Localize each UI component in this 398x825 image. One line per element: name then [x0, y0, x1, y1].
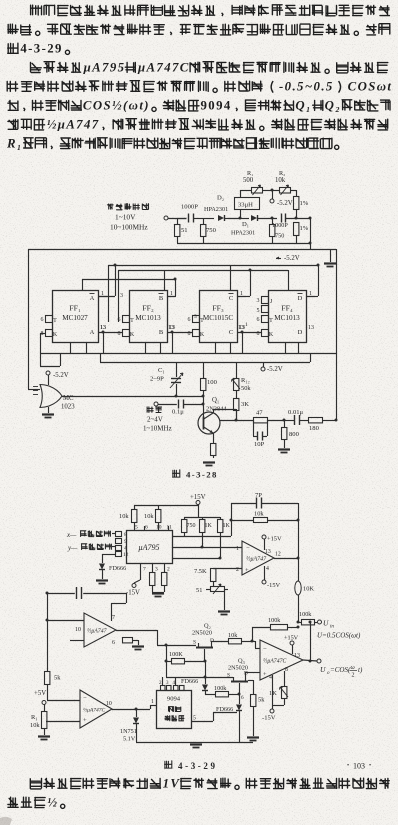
svg-text:750: 750	[275, 233, 284, 240]
wire resistor bank bus	[184, 517, 220, 519]
svg-text:R₁: R₁	[247, 170, 253, 177]
resistor 750	[201, 218, 217, 243]
resistor 800 shunt	[282, 428, 300, 449]
op-amp U6 half-uA747C comparator	[80, 690, 112, 728]
wire left rail fig2	[46, 592, 49, 672]
capacitor 7P feedback	[231, 492, 298, 509]
svg-text:5.1V: 5.1V	[123, 736, 136, 743]
resistor 1K bank-b	[218, 517, 231, 558]
flip-flop FF₄ MC1013	[269, 291, 316, 343]
svg-text:1K: 1K	[223, 523, 231, 529]
svg-text:Q₁: Q₁	[295, 99, 312, 113]
svg-text:T: T	[200, 318, 204, 324]
svg-text:5k: 5k	[258, 697, 265, 704]
wire output to rail	[322, 419, 338, 422]
svg-text:6: 6	[41, 317, 44, 323]
wire U4 minus-15V	[262, 675, 276, 722]
svg-text:100K: 100K	[169, 651, 183, 658]
svg-text:10: 10	[106, 701, 112, 707]
svg-text:ω: ω	[351, 665, 355, 671]
svg-text:t): t)	[358, 666, 363, 674]
label input level 1~10V	[110, 213, 148, 232]
svg-text:6: 6	[145, 525, 148, 531]
svg-text:13: 13	[168, 325, 174, 331]
svg-text:3: 3	[155, 567, 158, 573]
transistor Q1 2N3844	[198, 397, 227, 434]
svg-text:FF₃: FF₃	[212, 304, 224, 313]
svg-text:10k: 10k	[275, 177, 286, 184]
svg-text:10k: 10k	[30, 722, 40, 729]
svg-text:2N5020: 2N5020	[192, 630, 212, 637]
resistor 5k left rail	[45, 672, 62, 701]
svg-text:4: 4	[266, 566, 269, 572]
capacitor 0.1u output coupling	[172, 400, 205, 416]
resistor 10k Q2	[228, 632, 260, 649]
wire Q2 gate down	[204, 661, 207, 679]
resistor 100k U4 feedback	[251, 617, 300, 643]
diode FD666 bottom	[216, 694, 242, 742]
svg-text:47: 47	[256, 410, 263, 417]
flip-flop FF₃ MC1015C	[200, 291, 247, 343]
svg-text:-5.2V: -5.2V	[277, 200, 293, 207]
svg-text:•: •	[347, 763, 349, 769]
svg-text:Q₂: Q₂	[204, 623, 211, 630]
resistor 7.5K plus-input	[194, 565, 242, 586]
wire FF bottoms to bus	[71, 342, 299, 353]
flip-flop FF₁ MC1027	[53, 291, 108, 343]
op-amp U4 half-uA747C right	[260, 640, 303, 681]
svg-text:D₁: D₁	[242, 221, 249, 228]
svg-text:D₂: D₂	[217, 195, 224, 202]
resistor 750 bank	[182, 517, 196, 536]
wire	[177, 218, 187, 220]
svg-text:6: 6	[188, 317, 191, 323]
svg-text:2: 2	[236, 567, 239, 573]
svg-text:10k: 10k	[144, 513, 154, 520]
svg-text:100k: 100k	[268, 617, 281, 624]
svg-text:1000P: 1000P	[181, 204, 198, 211]
text paragraph1 line1	[31, 5, 390, 16]
wire FF1 K loop	[40, 333, 61, 367]
svg-text:0.1μ: 0.1μ	[172, 409, 184, 416]
svg-text:13: 13	[265, 549, 271, 555]
wire bottom bus F	[100, 353, 311, 363]
svg-text:6: 6	[257, 317, 260, 323]
wire right rail	[309, 217, 312, 250]
transistor Q2 2N5020 FET	[192, 623, 214, 662]
power +15V figure2	[190, 494, 206, 517]
resistor under pin2	[152, 573, 167, 593]
svg-text:3K: 3K	[241, 401, 249, 408]
resistor emitter	[209, 444, 216, 462]
svg-text:6: 6	[112, 640, 115, 646]
svg-text:1%: 1%	[300, 225, 309, 232]
svg-text:S: S	[227, 673, 230, 679]
svg-text:½μA747: ½μA747	[246, 556, 267, 563]
ground 800	[278, 450, 290, 453]
node input terminal	[164, 216, 187, 220]
svg-text:MC1015C: MC1015C	[203, 314, 234, 322]
svg-text:+: +	[263, 671, 267, 678]
node junction	[271, 217, 298, 220]
svg-text:0.01μ: 0.01μ	[288, 409, 304, 416]
svg-text:FF₄: FF₄	[281, 304, 293, 313]
text paragraph2 line2	[7, 80, 392, 94]
svg-text:10K: 10K	[303, 586, 314, 593]
resistor 100K Q2 gate	[165, 645, 207, 677]
resistor 51	[175, 218, 188, 243]
svg-text:33μH: 33μH	[238, 202, 253, 209]
svg-text:½μA747C: ½μA747C	[83, 707, 105, 714]
figure caption 图 4-3-28	[173, 470, 218, 480]
svg-text:R₂: R₂	[279, 170, 285, 177]
wire R1 to U6 plus	[44, 721, 80, 723]
svg-text:2~9P: 2~9P	[150, 376, 164, 383]
svg-text:½: ½	[47, 796, 58, 810]
text paragraph2 line3	[8, 99, 390, 113]
wire	[267, 419, 286, 428]
ground top right	[324, 249, 336, 267]
svg-text:3: 3	[257, 298, 260, 304]
ground trim	[218, 612, 230, 615]
svg-text:HPA2301: HPA2301	[231, 230, 255, 237]
svg-text:-15V: -15V	[267, 582, 281, 589]
svg-text:Q₁: Q₁	[212, 397, 219, 404]
svg-text:K: K	[269, 332, 274, 338]
svg-text:x—: x—	[66, 531, 77, 539]
ground R1	[38, 737, 50, 740]
wire Q2 drain to 10k	[211, 641, 228, 643]
potentiometer R1 500	[243, 170, 264, 195]
resistor 10K right rail	[295, 581, 315, 622]
potentiometer R12 50k	[232, 362, 252, 398]
wire Q3 source row	[166, 678, 233, 686]
ground under IC	[152, 594, 164, 597]
resistor 3K	[234, 399, 250, 421]
pin 5 9094	[191, 712, 237, 722]
wire top	[134, 505, 198, 507]
text paragraph2 line1	[31, 61, 388, 75]
pins T K of FF₄	[257, 297, 274, 339]
svg-text:51: 51	[181, 227, 188, 234]
wire bottom bus fig2	[136, 742, 253, 744]
svg-text:U=0.5COS(ωt): U=0.5COS(ωt)	[317, 632, 361, 640]
svg-text:COS½(ωt): COS½(ωt)	[83, 99, 150, 113]
capacitor 0.01u	[284, 409, 304, 425]
svg-text:-0.5~0.5: -0.5~0.5	[279, 80, 334, 94]
svg-text:+: +	[245, 567, 249, 574]
wire FF3 pin1 up	[237, 269, 252, 297]
svg-text:FF₂: FF₂	[142, 304, 154, 313]
wire Q2 source row	[157, 644, 196, 647]
resistor 1K bank-a	[200, 517, 213, 547]
resistor 180	[309, 418, 323, 433]
svg-text:1: 1	[236, 546, 239, 552]
wire top row	[240, 190, 249, 192]
svg-text:1K: 1K	[269, 690, 277, 697]
svg-text:9: 9	[124, 539, 127, 545]
diode FD666 top-left	[99, 554, 126, 579]
svg-text:10k: 10k	[119, 513, 129, 520]
wire bottom bus E	[40, 353, 336, 355]
svg-text:1%: 1%	[300, 200, 309, 207]
svg-text:2: 2	[352, 673, 355, 679]
svg-text:A: A	[90, 295, 95, 302]
ground below gate	[42, 407, 54, 418]
flip-flop FF₂ MC1013	[130, 291, 177, 343]
power -15V opamp U2	[262, 566, 281, 589]
wire U2 output to rail	[274, 557, 300, 560]
node junction	[239, 217, 242, 220]
svg-text:2N5020: 2N5020	[228, 665, 248, 672]
svg-text:1: 1	[245, 322, 248, 328]
resistor U3 plus bias	[100, 638, 139, 646]
svg-text:μA747C: μA747C	[137, 61, 190, 75]
svg-text:−: −	[263, 646, 267, 653]
svg-text:2: 2	[167, 567, 170, 573]
text paragraph1 line2	[8, 24, 390, 36]
pins T K of FF₃	[188, 316, 205, 339]
svg-text:S: S	[193, 640, 196, 646]
wire IC pin14	[172, 557, 242, 560]
wire top bus A	[28, 249, 336, 251]
wire gate output	[62, 395, 205, 398]
svg-text:8: 8	[124, 532, 127, 538]
svg-text:+15V: +15V	[284, 635, 299, 642]
capacitor feedback left	[47, 587, 126, 599]
svg-text:5: 5	[193, 716, 196, 722]
wire gate inputs	[28, 249, 40, 395]
label y-residual adjust	[67, 544, 115, 552]
pins T K of FF₁	[41, 316, 58, 339]
ground emitter	[203, 463, 215, 466]
resistor 10k feedback	[231, 511, 300, 523]
svg-text:μA795: μA795	[83, 61, 126, 75]
svg-text:C: C	[229, 295, 233, 302]
svg-text:100k: 100k	[299, 611, 312, 618]
text bottom line2	[8, 796, 65, 810]
resistor 100 base	[201, 362, 218, 417]
svg-text:5: 5	[257, 308, 260, 314]
svg-text:R₁: R₁	[31, 714, 38, 721]
resistor 47	[254, 410, 268, 423]
svg-text:10: 10	[75, 627, 81, 633]
wire right feedback rail	[336, 249, 338, 420]
svg-text:T: T	[130, 318, 134, 324]
svg-text:8: 8	[188, 331, 191, 337]
svg-text:½μA747: ½μA747	[47, 118, 100, 132]
resistor under pin3	[150, 573, 155, 593]
svg-text:4-3-28: 4-3-28	[186, 470, 218, 480]
output terminal Uo	[317, 659, 363, 679]
wire bus D	[82, 279, 175, 281]
svg-text:4: 4	[269, 675, 272, 681]
svg-text:+5V: +5V	[34, 690, 46, 697]
power +5V	[34, 690, 46, 711]
svg-text:12: 12	[275, 552, 281, 558]
svg-text:13: 13	[308, 325, 314, 331]
svg-text:50k: 50k	[241, 385, 251, 392]
svg-text:−: −	[246, 545, 250, 552]
ground U3 bias	[132, 647, 144, 650]
capacitor 10P parallel	[253, 420, 268, 448]
wire IC pin1 feedback node	[172, 503, 233, 537]
svg-text:HPA2301: HPA2301	[204, 206, 228, 213]
svg-text:MC1013: MC1013	[135, 314, 161, 322]
resistor 1% lower	[294, 223, 309, 244]
svg-text:Q₂: Q₂	[325, 99, 342, 113]
diode D2 HPA2301	[204, 195, 240, 222]
gate MC1023	[40, 385, 75, 411]
svg-text:A: A	[90, 329, 95, 336]
svg-text:K: K	[130, 332, 135, 338]
wire Uin input	[298, 622, 301, 624]
svg-text:R₁₂: R₁₂	[241, 377, 250, 384]
svg-text:1~10V: 1~10V	[115, 213, 136, 222]
svg-text:13: 13	[294, 653, 300, 659]
svg-text:12: 12	[123, 552, 129, 558]
resistor 750 second	[270, 218, 285, 243]
resistor 5k Q3	[248, 680, 265, 736]
svg-text:103: 103	[353, 762, 365, 771]
text paragraph2 line4	[8, 118, 388, 132]
svg-text:-5.2V: -5.2V	[284, 255, 300, 262]
svg-text:U: U	[320, 665, 326, 674]
wire FF4 pin1 to bus B	[306, 264, 320, 297]
potentiometer R2 10k	[275, 170, 292, 195]
svg-text:C: C	[229, 329, 233, 336]
svg-text:Q₃: Q₃	[238, 658, 245, 665]
svg-text:+15V: +15V	[190, 494, 206, 501]
svg-text:K: K	[200, 332, 205, 338]
svg-text:y—: y—	[67, 544, 78, 552]
svg-text:5: 5	[135, 525, 138, 531]
svg-text:R₁: R₁	[6, 137, 23, 151]
label 正弦波输入 input	[107, 204, 148, 210]
svg-text:9094: 9094	[167, 696, 181, 703]
wire U6 top input	[47, 700, 80, 702]
pins top uA795	[135, 525, 172, 531]
label -5.2V bus	[276, 255, 300, 262]
svg-text:10k: 10k	[254, 511, 264, 518]
ground 5k	[247, 738, 259, 741]
svg-text:8: 8	[257, 331, 260, 337]
svg-text:8: 8	[285, 667, 288, 673]
resistor 10k top-a	[119, 505, 137, 530]
page number 103	[347, 762, 371, 771]
svg-text:½μA747: ½μA747	[87, 628, 108, 635]
pins T K of FF₂	[118, 316, 135, 339]
wire unity feedback right	[297, 621, 312, 663]
capacitor 1000P second	[272, 214, 310, 230]
diode FD666 mid	[202, 677, 208, 694]
inductor 33uH	[235, 190, 260, 218]
wire U6 output to 9094	[112, 705, 151, 711]
wire emitter	[213, 433, 215, 443]
wire cap to pin7 loop	[111, 593, 127, 621]
svg-text:1: 1	[151, 699, 154, 705]
capacitor C1 2~9P variable	[150, 362, 183, 396]
svg-text:2~4V: 2~4V	[147, 416, 163, 424]
op-amp U2 half-uA747	[236, 541, 281, 575]
wire FF2 pin1 to bus D	[167, 278, 177, 297]
wire FF1 pin1 to bus B	[98, 264, 117, 297]
wire	[203, 218, 214, 220]
svg-text:U: U	[323, 619, 329, 628]
svg-text:10: 10	[156, 525, 162, 531]
wire collector out	[220, 419, 253, 422]
svg-text:-15V: -15V	[126, 590, 140, 597]
resistor 100k input	[299, 611, 317, 625]
wire	[299, 420, 308, 422]
wire Q3 drain to U4 plus	[245, 672, 260, 675]
wire bottom return bus	[177, 243, 310, 245]
wire FF2 out to FF3 T	[167, 314, 197, 353]
svg-text:−: −	[83, 695, 87, 702]
zener 1N751 5.1V	[120, 709, 139, 743]
text paragraph1 line3	[8, 42, 70, 56]
svg-text:6: 6	[118, 317, 121, 323]
svg-text:9094: 9094	[200, 99, 231, 113]
svg-text:8: 8	[118, 331, 121, 337]
power tap -5.2V top	[270, 190, 293, 207]
svg-text:1K: 1K	[205, 523, 213, 529]
wire bus B	[108, 265, 318, 267]
wire FF3 out to FF4 T	[237, 322, 261, 353]
svg-text:+15V: +15V	[267, 536, 282, 543]
svg-text:K: K	[53, 332, 58, 338]
svg-text:4-3-29: 4-3-29	[20, 42, 63, 56]
pins left uA795	[116, 532, 129, 559]
wire U3 inputs	[46, 619, 85, 641]
IC U5 9094 trigger	[157, 691, 192, 729]
wire right rail fig2	[298, 503, 300, 581]
svg-text:500: 500	[243, 177, 254, 184]
op-amp U3 half-uA747 left	[75, 613, 116, 647]
svg-text:51: 51	[196, 587, 202, 594]
svg-text:7: 7	[143, 567, 146, 573]
svg-text:C₁: C₁	[158, 367, 165, 374]
svg-text:1~10MHz: 1~10MHz	[143, 425, 172, 433]
svg-text:10k: 10k	[228, 632, 238, 639]
svg-text:11: 11	[167, 525, 173, 531]
svg-text:7P: 7P	[255, 492, 262, 499]
svg-text:FF₁: FF₁	[69, 304, 81, 313]
svg-text:B: B	[159, 295, 164, 302]
svg-text:in: in	[330, 625, 334, 630]
wire U3 output	[116, 630, 158, 645]
svg-text:MC1027: MC1027	[62, 314, 88, 322]
svg-text:1N751: 1N751	[120, 728, 137, 735]
wire	[264, 189, 277, 192]
svg-text:COSωt: COSωt	[348, 80, 393, 94]
figure caption 图 4-3-29	[165, 761, 218, 771]
capacitor 1000P input coupling	[181, 204, 203, 223]
resistor 100k bottom	[205, 685, 244, 701]
wire	[292, 190, 297, 196]
svg-text:B: B	[159, 329, 164, 336]
svg-text:4: 4	[124, 546, 127, 552]
power tap -5.2V right	[261, 362, 283, 373]
svg-text:180: 180	[309, 425, 320, 432]
svg-text:5: 5	[194, 314, 197, 320]
pins bottom uA795	[141, 563, 171, 573]
power tap -5.2V left	[46, 371, 69, 385]
wire IC pin2 to opamp	[172, 546, 242, 549]
svg-text:=COS(: =COS(	[330, 666, 351, 674]
svg-text:5k: 5k	[54, 675, 61, 682]
svg-text:-15V: -15V	[262, 715, 276, 722]
